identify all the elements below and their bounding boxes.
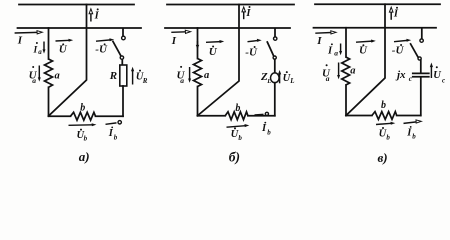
wire bottom left (circuit a) bbox=[49, 115, 71, 117]
wire left branch upper (circuit v) bbox=[345, 28, 347, 57]
label Ua with down arrow (circuit a) bbox=[29, 66, 41, 86]
resistor b (circuit a) bbox=[71, 112, 96, 120]
svg-text:I: I bbox=[171, 35, 177, 47]
wire feeder vertical + diagonal (circuit b) bbox=[198, 5, 240, 116]
wire left branch upper (circuit b) bbox=[197, 28, 199, 59]
capacitor xc plates (circuit v) bbox=[413, 73, 429, 76]
svg-text:U: U bbox=[359, 45, 368, 57]
svg-text:I: I bbox=[94, 10, 100, 21]
label ZL (circuit b) bbox=[260, 71, 271, 85]
bus top (circuit v) bbox=[315, 3, 440, 5]
label Ib with circle arrow (circuit a) bbox=[106, 121, 122, 142]
svg-text:a: a bbox=[326, 74, 330, 83]
svg-text:b: b bbox=[114, 133, 118, 141]
svg-text:jx: jx bbox=[395, 69, 406, 81]
switch S (circuit a) bbox=[113, 29, 125, 65]
svg-text:-U: -U bbox=[392, 44, 405, 56]
svg-text:R: R bbox=[142, 77, 148, 85]
current arrow Ib on wire with circle (circuit b) bbox=[255, 112, 269, 115]
label Ub with arrow (circuit a) bbox=[69, 123, 97, 142]
label U with arrow (circuit a) bbox=[56, 39, 74, 56]
wire bottom left (circuit v) bbox=[346, 115, 372, 117]
label UL with up arrow (circuit b) bbox=[278, 70, 295, 85]
label U with arrow (circuit v) bbox=[356, 40, 376, 57]
svg-text:b: b bbox=[381, 100, 386, 111]
label Ub with arrow (circuit b) bbox=[227, 124, 250, 142]
svg-text:b: b bbox=[412, 133, 416, 141]
impedance ZL circle element (circuit b) bbox=[271, 73, 280, 83]
label Ib with circle arrow (circuit v) bbox=[404, 120, 422, 141]
wire feeder vertical + diagonal (circuit v) bbox=[346, 4, 385, 115]
svg-text:L: L bbox=[289, 77, 294, 85]
resistor b (circuit b) bbox=[225, 112, 248, 120]
label U with arrow (circuit b) bbox=[206, 40, 224, 58]
label -U with arrow (circuit a) bbox=[95, 38, 114, 55]
wire right branch lower (circuit b) bbox=[274, 83, 276, 116]
label I top (circuit a) bbox=[94, 8, 100, 21]
label I feeder left (circuit v) bbox=[315, 31, 336, 47]
current arrow I top (circuit a) bbox=[89, 9, 93, 22]
svg-text:I: I bbox=[316, 35, 322, 47]
svg-text:b: b bbox=[80, 102, 85, 113]
svg-text:в): в) bbox=[378, 150, 388, 165]
svg-text:-U: -U bbox=[95, 44, 108, 56]
resistor a (circuit b) bbox=[194, 59, 202, 87]
svg-text:a: a bbox=[350, 65, 355, 76]
label Ib text (circuit b) bbox=[261, 122, 271, 137]
svg-text:I: I bbox=[17, 35, 23, 47]
wire right branch lower (circuit v) bbox=[420, 78, 422, 116]
svg-text:b: b bbox=[238, 134, 242, 142]
label I feeder left (circuit b) bbox=[171, 30, 191, 47]
svg-text:a: a bbox=[32, 76, 36, 85]
svg-text:a: a bbox=[180, 76, 184, 85]
bus bottom (circuit a) bbox=[18, 27, 142, 29]
wire bottom right (circuit v) bbox=[397, 115, 421, 117]
wire left branch lower (circuit a) bbox=[48, 87, 50, 116]
bus top (circuit a) bbox=[19, 4, 134, 6]
wire bottom left (circuit b) bbox=[198, 115, 226, 117]
label Ub with arrow (circuit v) bbox=[376, 122, 395, 142]
label -U with arrow (circuit b) bbox=[245, 39, 261, 59]
svg-text:b: b bbox=[267, 129, 271, 137]
svg-text:b: b bbox=[84, 135, 88, 143]
svg-text:b: b bbox=[386, 133, 390, 141]
label Uc with up arrow (circuit v) bbox=[430, 63, 445, 85]
wire bottom right (circuit b) bbox=[248, 115, 275, 117]
wire left branch lower (circuit b) bbox=[197, 87, 199, 116]
label UR with up arrow (circuit a) bbox=[131, 67, 148, 85]
svg-text:b: b bbox=[235, 103, 240, 114]
label I top (circuit v) bbox=[393, 7, 399, 20]
wire feeder vertical + diagonal (circuit a) bbox=[49, 5, 87, 117]
label Ia with down arrow (circuit a) bbox=[33, 42, 46, 57]
svg-text:U: U bbox=[209, 46, 218, 58]
label I top (circuit b) bbox=[245, 6, 251, 19]
label Ua with down arrow (circuit v) bbox=[322, 63, 340, 83]
svg-text:а): а) bbox=[79, 149, 90, 164]
bus bottom (circuit v) bbox=[314, 27, 437, 29]
svg-text:a: a bbox=[334, 49, 338, 58]
svg-text:б): б) bbox=[229, 150, 240, 165]
resistor R rectangle (circuit a) bbox=[120, 65, 127, 86]
label -U with arrow (circuit v) bbox=[392, 39, 411, 57]
current arrow I top (circuit v) bbox=[389, 7, 393, 20]
current arrowhead Ia on wire (circuit b) bbox=[196, 41, 199, 50]
wire bottom right (circuit a) bbox=[96, 115, 124, 117]
label Ia with down arrow (circuit v) bbox=[327, 43, 342, 57]
svg-text:I: I bbox=[33, 45, 38, 55]
svg-text:a: a bbox=[55, 71, 60, 82]
wire left branch lower (circuit v) bbox=[345, 85, 347, 116]
svg-text:-U: -U bbox=[245, 46, 258, 58]
bus top (circuit b) bbox=[167, 4, 294, 6]
svg-text:c: c bbox=[442, 76, 445, 84]
resistor b (circuit v) bbox=[372, 112, 397, 120]
wire right branch lower (circuit a) bbox=[122, 86, 124, 116]
resistor a (circuit v) bbox=[342, 57, 350, 85]
switch S (circuit v) bbox=[411, 29, 424, 73]
svg-text:a: a bbox=[38, 48, 42, 56]
switch S (circuit b) bbox=[267, 29, 277, 73]
label I feeder left (circuit a) bbox=[15, 31, 43, 47]
current arrow I top (circuit b) bbox=[242, 7, 246, 19]
resistor a (circuit a) bbox=[45, 59, 53, 87]
svg-text:R: R bbox=[109, 70, 117, 82]
svg-text:U: U bbox=[59, 44, 68, 56]
svg-text:L: L bbox=[266, 78, 271, 85]
label jxc (circuit v) bbox=[395, 69, 413, 83]
wire left branch upper (circuit a) bbox=[48, 28, 50, 59]
bus bottom (circuit b) bbox=[165, 27, 290, 29]
label Ua with down arrow (circuit b) bbox=[177, 66, 192, 85]
svg-text:a: a bbox=[204, 70, 209, 81]
